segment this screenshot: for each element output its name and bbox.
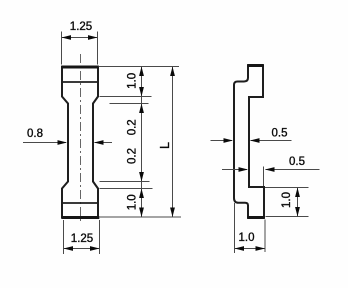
svg-text:L: L: [158, 142, 172, 149]
dim 0.8: right arrowhead: [94, 140, 104, 145]
dim 1.25 top: extension lines: [62, 32, 98, 65]
dim 1.0 bottom: extension lines: [235, 203, 266, 253]
extension line from part bottom edge to L dim: [100, 216, 182, 218]
extension line pair upper (0.2 gap): [100, 97, 153, 189]
front view top cap inner line: [62, 81, 98, 83]
stacked dimension line at x=141.5: [141, 67, 143, 218]
front view top edge (thick): [61, 66, 99, 69]
dim 0.5 upper: leader lines: [211, 140, 292, 142]
front view bottom edge (thick): [62, 216, 100, 219]
svg-text:1.0: 1.0: [127, 194, 139, 210]
dim 0.5 lower: left arrowhead: [239, 167, 249, 172]
dim 1.25 bottom: arrowheads: [64, 246, 74, 251]
dim 1.0 right: arrowheads: [295, 188, 300, 198]
svg-text:0.2: 0.2: [127, 148, 139, 164]
svg-text:1.0: 1.0: [127, 73, 139, 89]
dim 0.5 lower: leader lines: [222, 169, 320, 171]
dim 1.0 right: extension lines: [265, 188, 309, 217]
front view centerline: [80, 54, 82, 224]
svg-text:1.0: 1.0: [281, 192, 293, 208]
dim 1.25 top: dimension line: [62, 37, 98, 39]
front view bottom cap inner line: [62, 202, 98, 204]
dim 1.0 bottom: arrowheads: [235, 246, 245, 251]
extension line pair lower (0.2 gap): [100, 181, 150, 183]
dim 1.25 bottom: extension lines: [64, 220, 100, 254]
svg-text:0.2: 0.2: [127, 119, 139, 135]
dim L: dimension line: [172, 67, 174, 218]
svg-text:1.0: 1.0: [239, 232, 255, 244]
svg-text:0.5: 0.5: [272, 128, 288, 140]
front view body outline: [62, 67, 98, 218]
dim 0.5 upper: left arrowhead: [224, 138, 234, 143]
dim 0.8: left arrowhead: [58, 140, 68, 145]
dim 0.5 lower: right arrowhead: [265, 167, 275, 172]
dim 0.5 upper: right arrowhead: [250, 138, 260, 143]
dim 0.8: left leader line: [23, 142, 112, 144]
extension line up from cap right edge: [263, 167, 265, 187]
side view top edge (thick): [247, 64, 264, 67]
stacked dim arrowheads: [139, 67, 144, 77]
svg-text:0.8: 0.8: [27, 128, 43, 140]
svg-text:1.25: 1.25: [71, 233, 93, 245]
side view body outline: [234, 66, 264, 218]
dim 1.25 top: arrowheads: [62, 35, 72, 40]
side view bottom edge (thick): [247, 216, 265, 219]
extension line from part top edge to L dim: [99, 66, 180, 68]
svg-text:0.5: 0.5: [289, 156, 305, 168]
svg-text:1.25: 1.25: [70, 21, 92, 33]
